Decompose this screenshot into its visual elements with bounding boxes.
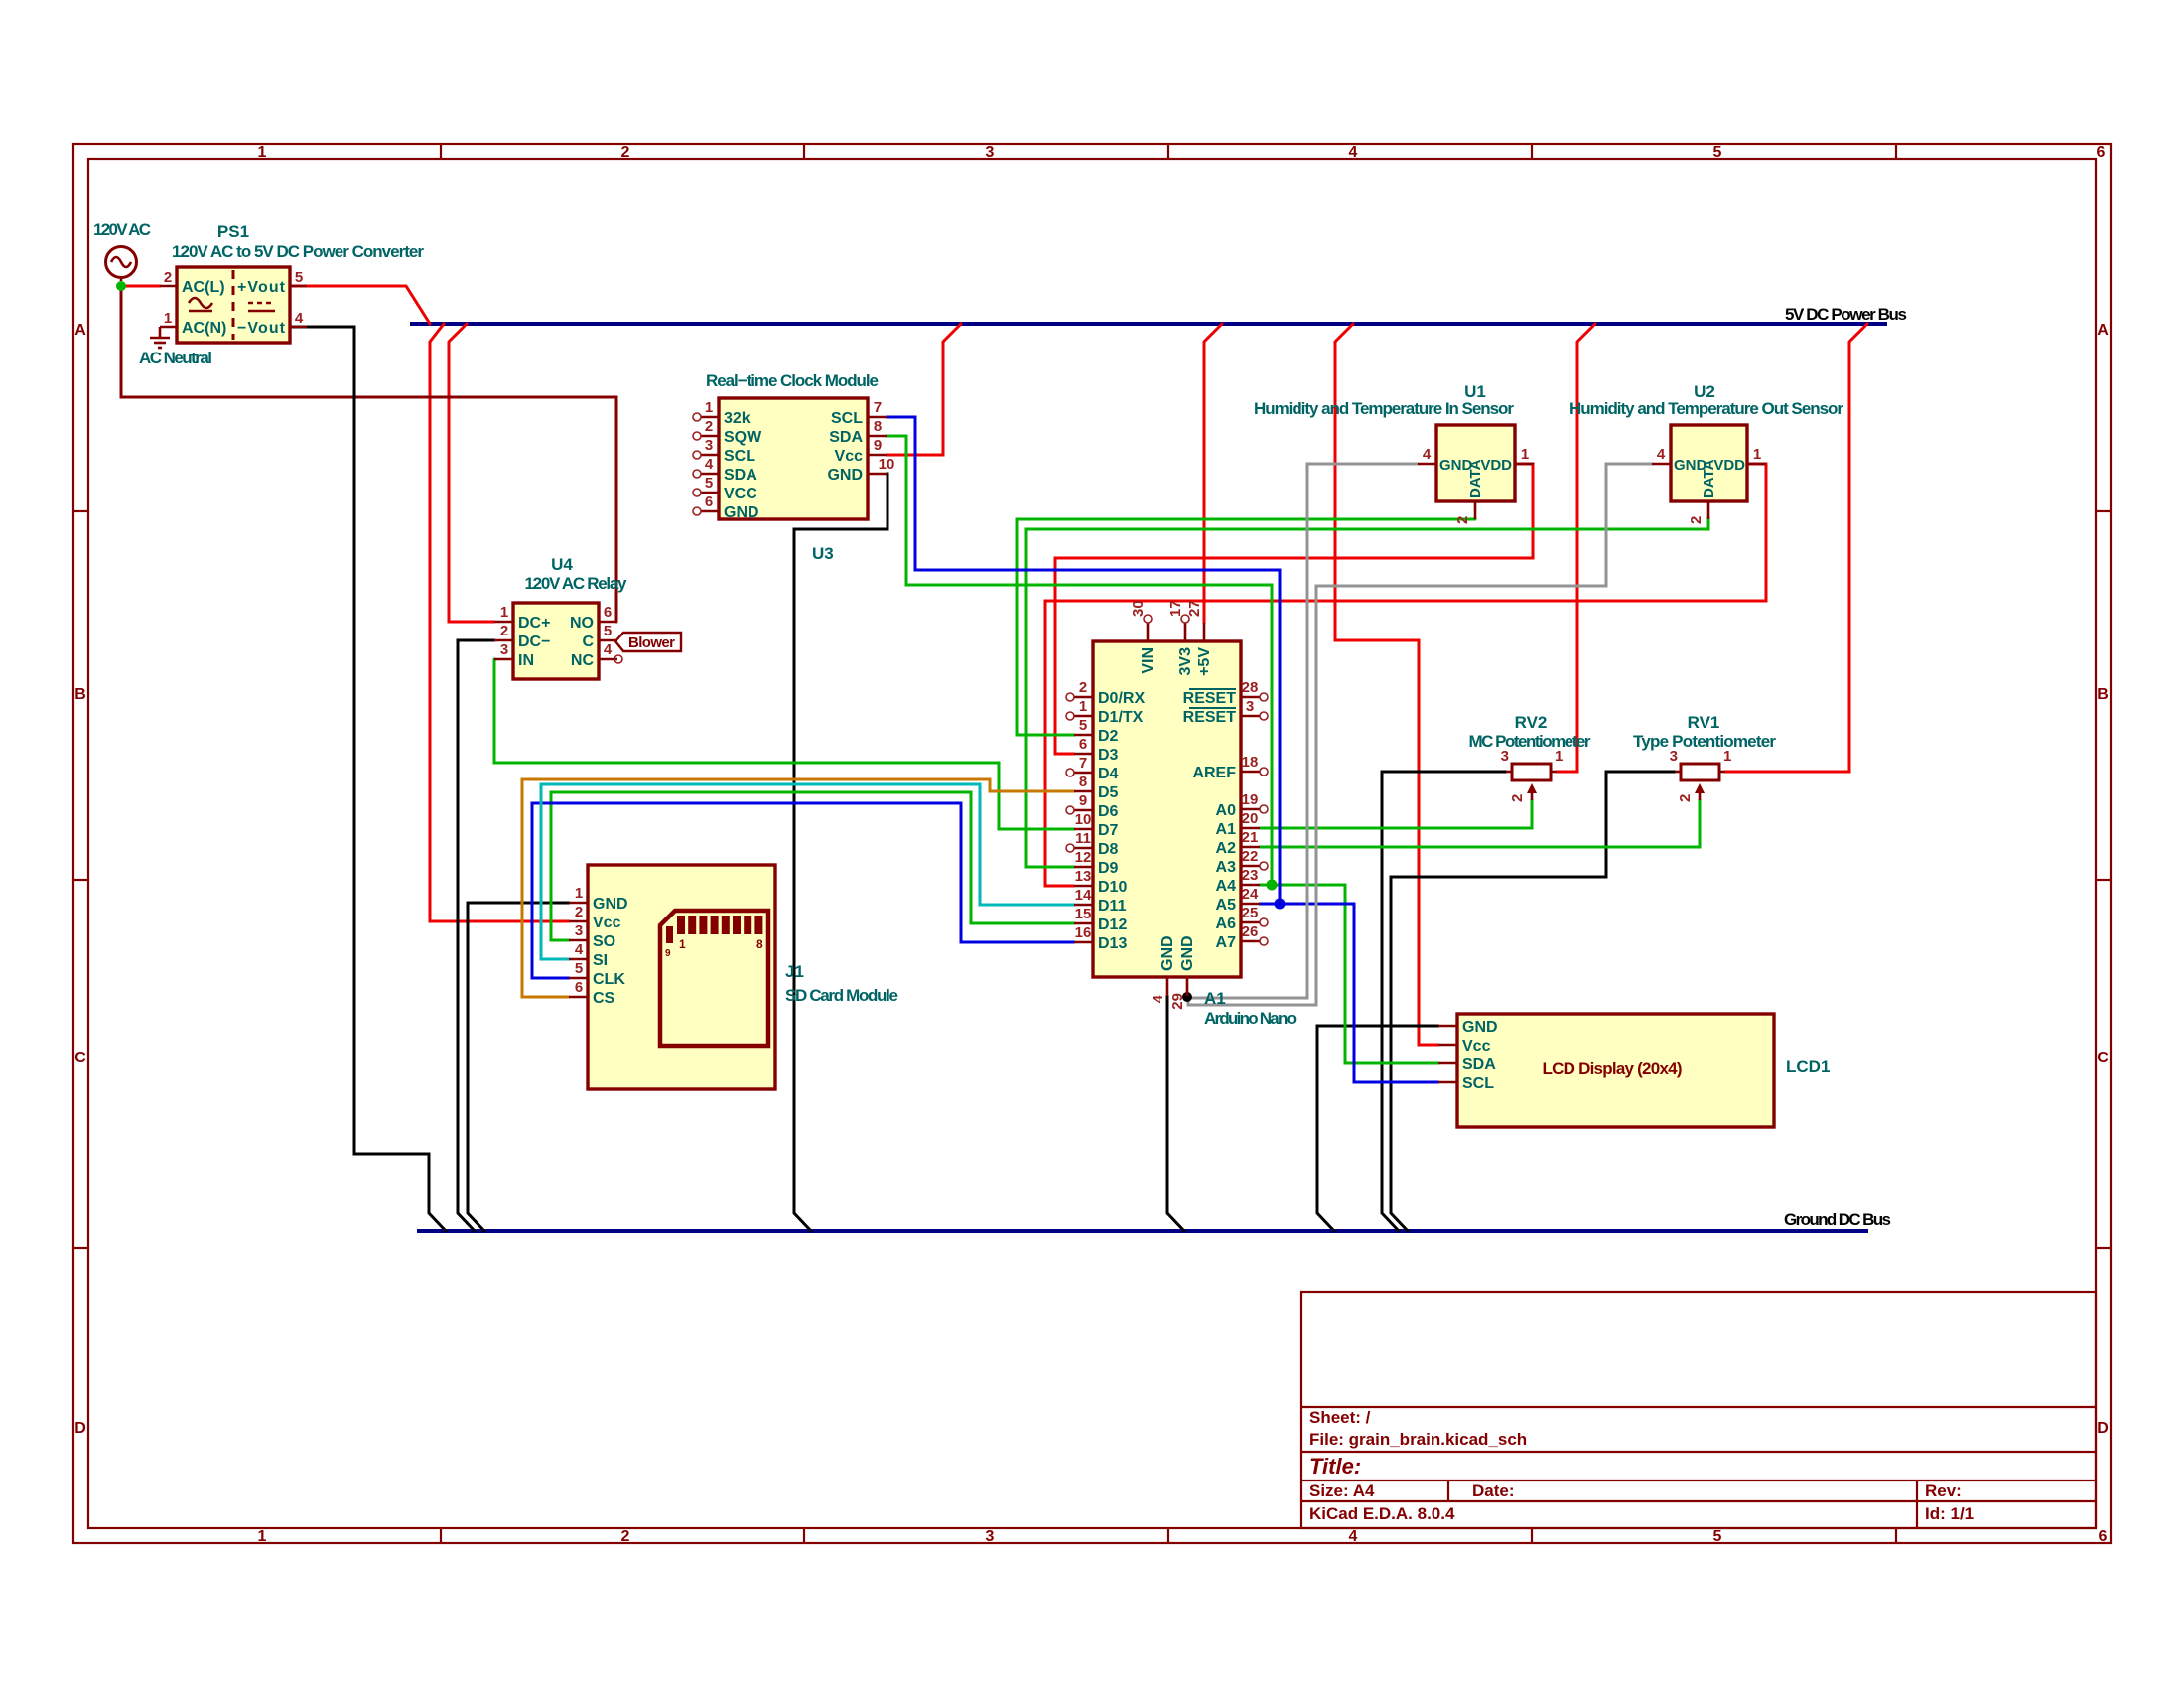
svg-text:LCD Display (20x4): LCD Display (20x4) [1543,1059,1683,1078]
svg-text:28: 28 [1242,679,1259,696]
svg-text:A4: A4 [1216,878,1237,895]
svg-text:+Vout: +Vout [237,279,286,296]
svg-text:D13: D13 [1098,935,1127,952]
svg-text:AC(L): AC(L) [182,279,225,296]
svg-text:SCL: SCL [1462,1075,1494,1092]
svg-text:8: 8 [874,418,882,435]
svg-text:SCL: SCL [831,410,863,427]
svg-text:120V AC to 5V DC Power Convert: 120V AC to 5V DC Power Converter [172,242,424,261]
svg-text:3: 3 [705,437,713,454]
svg-text:2: 2 [500,623,508,639]
svg-text:PS1: PS1 [217,222,249,241]
svg-text:6: 6 [604,604,612,621]
svg-text:9: 9 [665,948,671,959]
svg-text:2: 2 [1677,794,1694,802]
svg-text:30: 30 [1130,600,1147,617]
svg-text:6: 6 [2097,144,2106,161]
svg-text:AC(N): AC(N) [182,320,226,337]
svg-text:AC Neutral: AC Neutral [139,349,212,367]
svg-text:2: 2 [621,144,630,161]
svg-text:Vcc: Vcc [1462,1038,1491,1055]
svg-text:Blower: Blower [628,635,675,651]
svg-text:1: 1 [1753,446,1761,463]
svg-text:5: 5 [575,960,583,977]
svg-text:Vcc: Vcc [593,915,621,931]
svg-text:7: 7 [1079,755,1087,772]
svg-text:Real−time Clock Module: Real−time Clock Module [706,371,879,390]
svg-text:SO: SO [593,933,615,950]
svg-text:5: 5 [604,623,612,639]
svg-text:NO: NO [570,615,594,632]
svg-text:GND: GND [1160,935,1176,971]
svg-text:12: 12 [1075,849,1092,866]
svg-text:1: 1 [705,399,713,416]
svg-text:SQW: SQW [724,429,762,446]
svg-text:KiCad E.D.A. 8.0.4: KiCad E.D.A. 8.0.4 [1309,1504,1455,1523]
svg-text:18: 18 [1242,754,1259,771]
svg-text:DC+: DC+ [518,615,550,632]
svg-text:4: 4 [295,310,304,327]
svg-text:SDA: SDA [829,429,863,446]
svg-text:7: 7 [874,399,882,416]
svg-text:2: 2 [1688,516,1705,524]
svg-text:RV1: RV1 [1688,713,1720,732]
svg-text:2: 2 [621,1528,630,1545]
svg-text:19: 19 [1242,791,1259,808]
svg-text:GND: GND [593,896,628,913]
svg-text:Humidity and Temperature Out S: Humidity and Temperature Out Sensor [1570,399,1843,418]
svg-text:4: 4 [1423,446,1432,463]
svg-text:VIN: VIN [1140,647,1157,674]
svg-text:D3: D3 [1098,747,1119,764]
svg-text:AREF: AREF [1192,765,1236,781]
svg-text:RESET: RESET [1183,690,1237,707]
svg-text:25: 25 [1242,905,1259,921]
svg-text:5: 5 [1713,1528,1722,1545]
svg-text:6: 6 [705,494,713,510]
svg-text:8: 8 [1079,774,1087,790]
svg-text:A: A [74,322,86,339]
svg-text:Size: A4: Size: A4 [1309,1481,1375,1500]
svg-text:Id: 1/1: Id: 1/1 [1925,1504,1974,1523]
svg-text:9: 9 [874,437,882,454]
svg-text:26: 26 [1242,923,1259,940]
svg-text:10: 10 [1075,811,1092,828]
svg-text:1: 1 [1521,446,1529,463]
svg-text:GND: GND [1462,1019,1498,1036]
svg-text:A2: A2 [1216,840,1237,857]
svg-text:Title:: Title: [1309,1454,1361,1479]
svg-text:U4: U4 [551,555,573,574]
svg-text:120V AC Relay: 120V AC Relay [525,574,628,593]
svg-text:D: D [2097,1420,2109,1437]
svg-text:CLK: CLK [593,971,625,988]
svg-text:+5V: +5V [1196,647,1213,676]
svg-text:16: 16 [1075,924,1092,941]
svg-text:GND: GND [1179,935,1196,971]
svg-text:20: 20 [1242,810,1259,827]
svg-text:2: 2 [1079,679,1087,696]
svg-text:MC Potentiometer: MC Potentiometer [1469,732,1591,751]
svg-text:D4: D4 [1098,766,1119,782]
svg-text:RV2: RV2 [1515,713,1548,732]
svg-text:A6: A6 [1216,916,1237,932]
svg-text:32k: 32k [724,410,751,427]
svg-text:1: 1 [1079,698,1087,715]
svg-text:D0/RX: D0/RX [1098,690,1145,707]
svg-text:DATA: DATA [1701,459,1717,498]
svg-text:4: 4 [1349,1528,1358,1545]
svg-text:RESET: RESET [1183,709,1237,726]
svg-text:3: 3 [1246,698,1254,715]
svg-text:3: 3 [500,641,508,658]
svg-text:11: 11 [1075,830,1091,847]
svg-text:J1: J1 [785,962,804,981]
svg-text:Rev:: Rev: [1925,1481,1962,1500]
svg-text:D: D [74,1420,86,1437]
svg-text:5: 5 [1713,144,1722,161]
svg-text:5V DC Power Bus: 5V DC Power Bus [1785,305,1907,324]
svg-text:C: C [74,1050,86,1066]
svg-text:C: C [582,634,594,650]
svg-text:4: 4 [1657,446,1666,463]
svg-text:U3: U3 [812,544,834,563]
svg-text:3V3: 3V3 [1177,647,1194,676]
svg-text:4: 4 [1150,994,1166,1003]
svg-text:1: 1 [258,1528,267,1545]
svg-text:SI: SI [593,952,608,969]
svg-text:2: 2 [1509,794,1526,802]
svg-text:D1/TX: D1/TX [1098,709,1144,726]
svg-text:A: A [2097,322,2109,339]
svg-text:2: 2 [575,904,583,920]
svg-text:A0: A0 [1216,802,1237,819]
svg-text:4: 4 [604,641,613,658]
svg-text:21: 21 [1242,829,1259,846]
svg-text:B: B [74,686,86,703]
svg-text:1: 1 [679,937,686,951]
svg-text:D11: D11 [1098,898,1127,915]
svg-text:29: 29 [1169,993,1186,1010]
svg-text:14: 14 [1075,887,1092,904]
svg-text:VDD: VDD [1480,457,1512,474]
svg-text:6: 6 [2099,1528,2108,1545]
svg-text:1: 1 [164,310,172,327]
svg-text:D5: D5 [1098,784,1119,801]
svg-text:SDA: SDA [1462,1057,1496,1073]
svg-text:NC: NC [571,652,595,669]
svg-text:SDA: SDA [724,467,757,484]
svg-text:File: grain_brain.kicad_sch: File: grain_brain.kicad_sch [1309,1430,1527,1449]
svg-text:Sheet: /: Sheet: / [1309,1408,1371,1427]
svg-text:2: 2 [705,418,713,435]
svg-text:LCD1: LCD1 [1786,1058,1830,1076]
svg-text:IN: IN [518,652,534,669]
svg-text:3: 3 [986,144,995,161]
svg-text:SCL: SCL [724,448,755,465]
svg-text:Humidity and Temperature In Se: Humidity and Temperature In Sensor [1254,399,1514,418]
svg-text:A7: A7 [1216,934,1237,951]
svg-text:D8: D8 [1098,841,1119,858]
svg-text:3: 3 [575,922,583,939]
svg-text:SD Card Module: SD Card Module [785,986,898,1005]
svg-text:Ground DC Bus: Ground DC Bus [1784,1210,1891,1229]
svg-text:8: 8 [756,937,763,951]
svg-text:2: 2 [1454,516,1471,524]
svg-text:5: 5 [705,475,713,492]
svg-text:VCC: VCC [724,486,757,502]
svg-text:Arduino Nano: Arduino Nano [1204,1009,1297,1028]
svg-text:6: 6 [1079,736,1087,753]
svg-text:GND: GND [827,467,863,484]
svg-text:23: 23 [1242,867,1259,884]
svg-text:10: 10 [879,456,895,473]
svg-text:24: 24 [1242,886,1259,903]
svg-text:A1: A1 [1204,989,1226,1008]
svg-text:120V AC: 120V AC [93,220,151,239]
svg-text:4: 4 [1349,144,1358,161]
svg-text:DATA: DATA [1467,459,1484,498]
svg-text:Date:: Date: [1472,1481,1515,1500]
svg-text:5: 5 [1079,717,1087,734]
svg-text:A5: A5 [1216,897,1237,914]
svg-text:1: 1 [500,604,508,621]
svg-text:5: 5 [295,269,303,286]
svg-text:D10: D10 [1098,879,1127,896]
svg-text:D12: D12 [1098,917,1127,933]
svg-text:1: 1 [258,144,267,161]
svg-text:D9: D9 [1098,860,1119,877]
svg-text:Vcc: Vcc [835,448,864,465]
svg-text:D7: D7 [1098,822,1119,839]
svg-text:D2: D2 [1098,728,1119,745]
svg-text:−Vout: −Vout [237,320,286,337]
svg-text:17: 17 [1167,600,1184,617]
svg-text:DC−: DC− [518,634,550,650]
svg-text:13: 13 [1075,868,1092,885]
svg-text:3: 3 [986,1528,995,1545]
svg-text:B: B [2097,686,2109,703]
svg-text:VDD: VDD [1713,457,1745,474]
svg-text:CS: CS [593,990,615,1007]
svg-text:2: 2 [164,269,172,286]
svg-text:1: 1 [575,885,583,902]
svg-text:22: 22 [1242,848,1259,865]
svg-text:D6: D6 [1098,803,1119,820]
svg-text:GND: GND [724,504,759,521]
svg-text:C: C [2097,1050,2109,1066]
svg-text:A3: A3 [1216,859,1237,876]
svg-text:4: 4 [705,456,714,473]
svg-text:27: 27 [1186,600,1203,617]
svg-text:9: 9 [1079,792,1087,809]
svg-text:6: 6 [575,979,583,996]
svg-text:15: 15 [1075,906,1092,922]
svg-text:A1: A1 [1216,821,1237,838]
svg-text:Type Potentiometer: Type Potentiometer [1633,732,1776,751]
svg-text:4: 4 [575,941,584,958]
